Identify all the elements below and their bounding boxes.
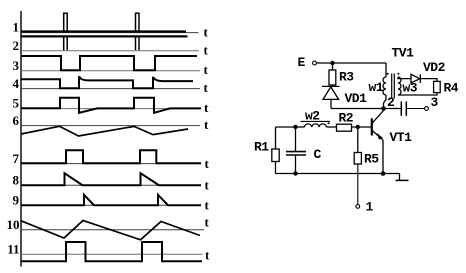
svg-text:VD2: VD2 [423, 60, 446, 75]
svg-text:10: 10 [7, 217, 20, 232]
svg-text:9: 9 [13, 193, 20, 208]
svg-text:w1: w1 [369, 80, 384, 95]
svg-text:11: 11 [7, 242, 19, 257]
svg-text:3: 3 [431, 95, 439, 110]
svg-text:R1: R1 [254, 140, 269, 155]
svg-text:t: t [204, 43, 209, 58]
svg-text:t: t [204, 62, 209, 77]
svg-text:t: t [205, 178, 210, 193]
svg-text:VD1: VD1 [345, 91, 368, 106]
svg-text:t: t [204, 100, 209, 115]
svg-text:t: t [204, 80, 209, 95]
svg-text:R4: R4 [444, 81, 459, 96]
svg-text:8: 8 [13, 173, 20, 188]
svg-text:t: t [205, 156, 210, 171]
svg-text:1: 1 [366, 200, 374, 215]
svg-text:R2: R2 [339, 111, 354, 126]
svg-text:5: 5 [13, 96, 20, 111]
svg-text:2: 2 [387, 95, 395, 110]
svg-text:E: E [298, 55, 306, 70]
svg-text:2: 2 [13, 38, 20, 53]
svg-text:7: 7 [13, 151, 20, 166]
svg-text:6: 6 [13, 113, 20, 128]
svg-text:t: t [204, 117, 209, 132]
svg-text:R5: R5 [364, 152, 379, 167]
svg-text:t: t [205, 248, 210, 263]
svg-text:R3: R3 [339, 70, 354, 85]
svg-text:TV1: TV1 [392, 46, 415, 61]
svg-text:4: 4 [13, 76, 20, 91]
svg-text:3: 3 [13, 58, 20, 73]
svg-text:w3: w3 [403, 81, 418, 96]
svg-text:t: t [205, 198, 210, 213]
svg-text:t: t [205, 215, 210, 230]
svg-text:C: C [314, 147, 322, 162]
svg-text:VT1: VT1 [390, 130, 413, 145]
svg-text:t: t [204, 25, 209, 40]
svg-text:1: 1 [13, 20, 20, 35]
